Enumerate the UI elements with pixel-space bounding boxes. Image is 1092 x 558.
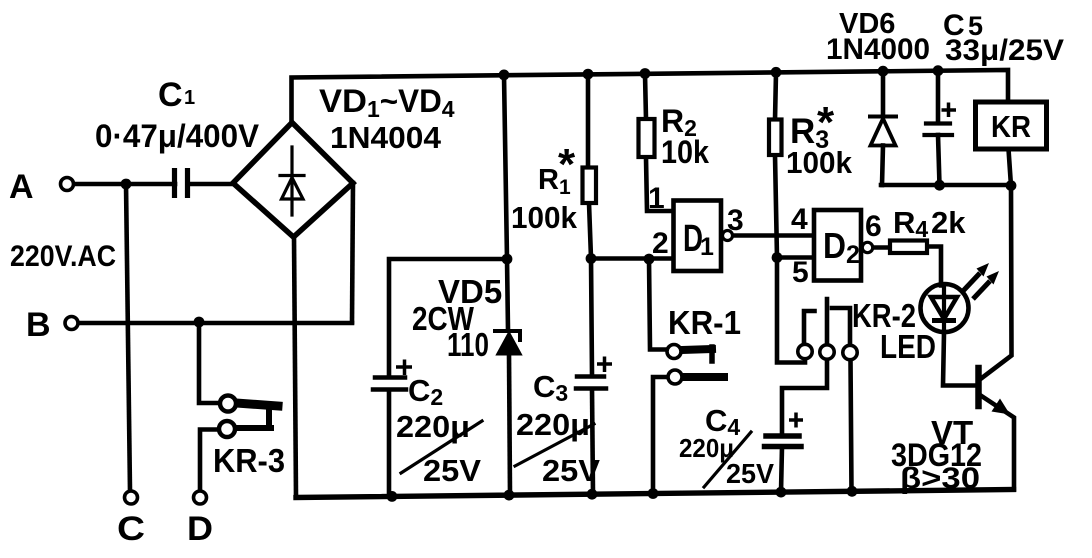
svg-text:0·47μ/400V: 0·47μ/400V (95, 118, 260, 154)
svg-text:KR-3: KR-3 (213, 442, 285, 479)
svg-text:D: D (187, 510, 213, 548)
svg-text:1: 1 (184, 87, 195, 109)
svg-text:5: 5 (792, 256, 809, 289)
svg-text:1N4000: 1N4000 (826, 33, 930, 66)
svg-text:KR-1: KR-1 (668, 304, 741, 341)
svg-text:β>30: β>30 (900, 462, 980, 495)
svg-text:100k: 100k (786, 145, 853, 180)
svg-text:6: 6 (865, 210, 882, 243)
svg-text:100k: 100k (511, 200, 578, 235)
svg-text:1: 1 (700, 233, 714, 261)
svg-text:25V: 25V (726, 458, 774, 489)
svg-text:33μ/25V: 33μ/25V (945, 34, 1064, 67)
svg-text:25V: 25V (423, 453, 481, 488)
svg-text:KR: KR (991, 109, 1031, 144)
svg-text:2: 2 (652, 227, 669, 260)
svg-text:1N4004: 1N4004 (330, 120, 442, 155)
svg-text:10k: 10k (661, 134, 709, 170)
svg-text:1: 1 (648, 182, 665, 215)
svg-text:A: A (9, 168, 34, 206)
svg-text:110: 110 (447, 326, 489, 363)
svg-text:B: B (26, 306, 51, 344)
svg-text:*: * (558, 140, 576, 189)
svg-text:2k: 2k (931, 205, 966, 240)
svg-text:220μ: 220μ (396, 409, 470, 444)
svg-text:3: 3 (727, 204, 744, 237)
svg-text:4: 4 (791, 203, 808, 236)
svg-text:25V: 25V (542, 453, 600, 488)
svg-text:*: * (817, 98, 835, 147)
svg-text:C: C (158, 76, 183, 114)
svg-text:LED: LED (880, 328, 936, 365)
svg-text:C: C (117, 510, 145, 548)
svg-text:220μ: 220μ (516, 407, 590, 442)
svg-text:220V.AC: 220V.AC (10, 240, 116, 273)
svg-text:VD1~VD4: VD1~VD4 (319, 83, 455, 122)
